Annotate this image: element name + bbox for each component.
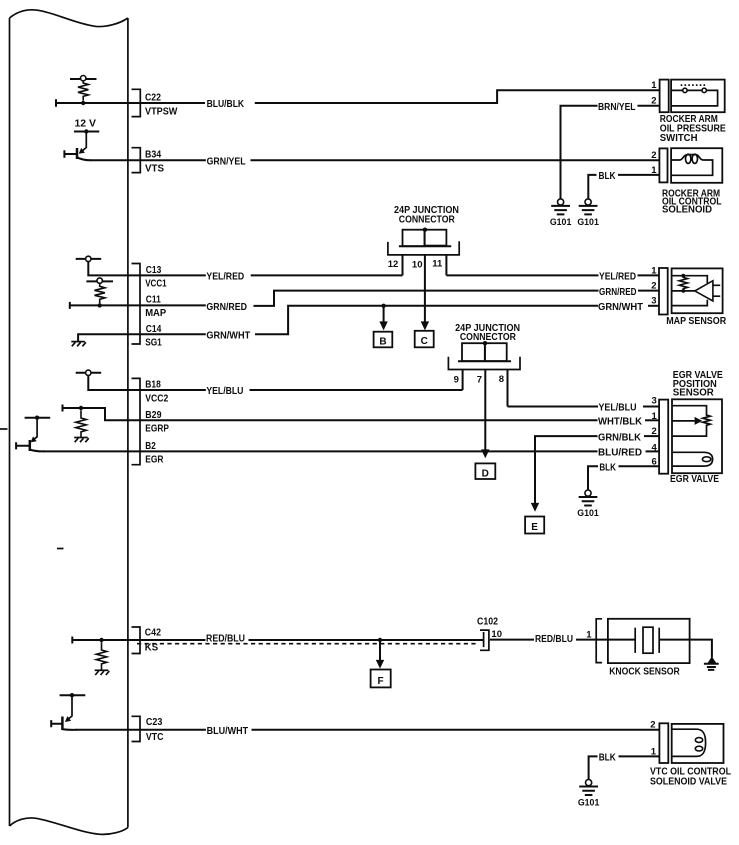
svg-text:F: F xyxy=(378,676,384,687)
svg-text:EGRP: EGRP xyxy=(145,424,169,435)
wire YEL/BLU (B18 to junction pin 9) xyxy=(129,385,463,397)
svg-text:6: 6 xyxy=(652,456,657,467)
transistor Q1 (VTS driver) xyxy=(64,129,99,160)
EGR valve position sensor / EGR valve xyxy=(652,370,724,485)
wire GRN/WHT (C14 to MAP sensor) xyxy=(129,301,660,342)
VTC oil control solenoid valve xyxy=(650,720,731,788)
wire YEL/RED (junction pin 11 to MAP sensor) xyxy=(446,271,659,283)
svg-text:GRN/BLK: GRN/BLK xyxy=(598,431,641,443)
wire C22 internal xyxy=(56,99,129,106)
svg-text:GRN/RED: GRN/RED xyxy=(599,286,637,298)
svg-text:SG1: SG1 xyxy=(145,337,162,348)
svg-text:B: B xyxy=(379,336,386,347)
knock sensor xyxy=(586,619,718,678)
svg-text:9: 9 xyxy=(454,374,459,385)
svg-text:1: 1 xyxy=(652,411,658,422)
svg-text:C22: C22 xyxy=(145,92,161,103)
resistor R3 at pin B29 xyxy=(63,405,129,443)
svg-text:YEL/BLU: YEL/BLU xyxy=(206,385,243,397)
svg-text:YEL/RED: YEL/RED xyxy=(206,271,244,283)
svg-text:B18: B18 xyxy=(145,380,161,391)
svg-text:C11: C11 xyxy=(146,295,161,306)
connector bracket C42 xyxy=(132,627,141,654)
svg-text:11: 11 xyxy=(432,259,443,270)
svg-text:EGR VALVE: EGR VALVE xyxy=(670,474,719,485)
svg-text:12: 12 xyxy=(388,259,399,270)
svg-text:C13: C13 xyxy=(146,265,162,276)
svg-text:G101: G101 xyxy=(577,217,599,227)
svg-text:1: 1 xyxy=(651,165,657,176)
connector bracket C22 xyxy=(132,89,141,116)
svg-text:MAP SENSOR: MAP SENSOR xyxy=(666,316,727,327)
wire GRN/YEL (B34 to rocker arm oil control solenoid) xyxy=(129,155,660,167)
svg-text:SOLENOID VALVE: SOLENOID VALVE xyxy=(650,776,727,787)
svg-text:BLK: BLK xyxy=(599,170,616,182)
svg-text:4: 4 xyxy=(652,442,658,453)
svg-text:VCC2: VCC2 xyxy=(145,393,168,404)
svg-text:GRN/WHT: GRN/WHT xyxy=(206,330,250,342)
svg-text:C102: C102 xyxy=(477,616,498,627)
svg-text:3: 3 xyxy=(652,396,657,407)
svg-text:VTS: VTS xyxy=(145,164,164,175)
svg-text:2: 2 xyxy=(651,96,656,107)
svg-text:RED/BLU: RED/BLU xyxy=(206,633,245,645)
svg-text:10: 10 xyxy=(491,629,502,640)
wire junction pin 8 stub xyxy=(507,370,509,407)
node VCC1 supply bar at C13 xyxy=(76,256,129,275)
wire junction pin 12 stub xyxy=(402,255,404,276)
svg-text:BLU/WHT: BLU/WHT xyxy=(207,725,249,737)
wire BLK (EGR valve to G101) xyxy=(588,462,659,490)
connector F box xyxy=(371,670,391,688)
svg-text:E: E xyxy=(531,522,538,533)
connector bracket B34 xyxy=(132,148,141,173)
svg-text:C: C xyxy=(421,336,428,347)
svg-text:KNOCK SENSOR: KNOCK SENSOR xyxy=(609,666,680,677)
resistor R2 at pin C11 xyxy=(86,278,113,308)
svg-text:G101: G101 xyxy=(577,508,599,518)
wire C11 internal xyxy=(70,302,129,309)
transistor Q3 (VTC driver) xyxy=(51,693,85,730)
svg-text:BLK: BLK xyxy=(599,752,616,764)
rocker arm oil control solenoid xyxy=(651,148,722,215)
wire RED/BLU (C102 to knock sensor) xyxy=(490,633,635,645)
svg-text:8: 8 xyxy=(499,374,504,385)
wire junction pin 11 stub xyxy=(445,255,447,276)
arrowhead to connector E xyxy=(531,503,539,512)
ground G101 (VTC BLK) xyxy=(578,780,600,808)
svg-text:YEL/BLU: YEL/BLU xyxy=(599,402,637,414)
svg-text:3: 3 xyxy=(651,296,656,307)
wire to connector F xyxy=(379,640,381,660)
svg-text:SOLENOID: SOLENOID xyxy=(662,205,712,216)
svg-text:CONNECTOR: CONNECTOR xyxy=(399,214,456,225)
svg-text:EGR: EGR xyxy=(145,454,164,465)
svg-text:RED/BLU: RED/BLU xyxy=(535,633,573,645)
connector D box xyxy=(475,463,495,479)
svg-text:SWITCH: SWITCH xyxy=(660,133,698,144)
wire B2 internal xyxy=(43,450,129,452)
svg-text:B29: B29 xyxy=(145,410,162,421)
inline connector C102 pin 10 xyxy=(477,616,502,650)
svg-text:1: 1 xyxy=(651,80,657,91)
wire C23 internal xyxy=(76,729,129,731)
wire YEL/BLU (junction pin 8 to EGR sensor) xyxy=(508,402,660,414)
24P junction connector 1 xyxy=(388,205,459,270)
svg-text:G101: G101 xyxy=(578,797,600,807)
ground SG1 internal xyxy=(71,334,128,346)
wire GRN/BLK (EGR sensor to connector E) xyxy=(535,431,659,503)
svg-text:B34: B34 xyxy=(145,149,162,160)
wire GRN/RED (C11 to MAP sensor) xyxy=(129,286,660,313)
wire BRN/YEL (oil pressure switch to G101) xyxy=(561,101,660,199)
MAP sensor xyxy=(651,266,727,327)
wire junction pin 7 to connector D xyxy=(484,370,486,450)
wire YEL/RED (C13 to junction pin 12) xyxy=(129,271,403,283)
connector E box xyxy=(525,517,544,534)
connector B box xyxy=(374,332,393,348)
svg-text:12 V: 12 V xyxy=(75,118,97,129)
svg-text:BRN/YEL: BRN/YEL xyxy=(598,101,636,113)
wire WHT/BLK (B29 to EGR sensor) xyxy=(129,416,660,428)
stray mark xyxy=(57,548,64,550)
svg-text:2: 2 xyxy=(652,426,657,437)
svg-text:10: 10 xyxy=(412,259,423,270)
node VCC2 supply bar at B18 xyxy=(76,370,129,390)
wire junction pin 9 stub xyxy=(462,370,464,391)
wire BLU/BLK (C22 to rocker arm oil pressure switch) xyxy=(129,90,660,110)
wire BLU/WHT (C23 to VTC solenoid) xyxy=(129,725,660,737)
rocker arm oil pressure switch xyxy=(651,80,726,144)
connector bracket C23 xyxy=(132,716,141,741)
transistor Q2 (EGR driver) xyxy=(16,416,50,452)
connector C box xyxy=(415,331,434,348)
svg-text:MAP: MAP xyxy=(145,308,166,319)
wire BLK (VTC solenoid to G101) xyxy=(589,752,660,780)
svg-text:2: 2 xyxy=(651,281,656,292)
wire BLU/RED (B2 to EGR valve) xyxy=(129,447,660,459)
wire RED/BLU shielded (C42 to C102) xyxy=(129,633,484,645)
connector bracket B18/B29/B2 xyxy=(132,378,141,464)
svg-text:GRN/YEL: GRN/YEL xyxy=(207,155,246,167)
svg-text:1: 1 xyxy=(651,746,657,757)
connector bracket C13/C11/C14 xyxy=(132,264,141,345)
resistor R1 pull-up at pin C22 xyxy=(70,76,97,106)
ground G101 (EGR BLK) xyxy=(577,490,599,518)
svg-text:VTC: VTC xyxy=(146,732,164,743)
svg-text:YEL/RED: YEL/RED xyxy=(599,271,636,283)
svg-text:7: 7 xyxy=(477,374,482,385)
svg-text:VTPSW: VTPSW xyxy=(145,107,178,118)
svg-text:BLU/BLK: BLU/BLK xyxy=(207,98,245,110)
svg-text:VCC1: VCC1 xyxy=(145,278,167,289)
24P junction connector 2 xyxy=(448,323,520,386)
svg-text:BLU/RED: BLU/RED xyxy=(598,447,642,459)
svg-text:D: D xyxy=(482,468,489,479)
svg-text:B2: B2 xyxy=(145,441,156,452)
svg-text:C23: C23 xyxy=(146,717,163,728)
svg-text:C42: C42 xyxy=(145,628,162,639)
svg-text:G101: G101 xyxy=(550,217,572,227)
wire B34 internal xyxy=(90,159,129,161)
ground G101 (solenoid BLK) xyxy=(577,199,599,227)
ECM body outline xyxy=(10,10,128,835)
resistor R4 at pin C42 xyxy=(72,637,128,676)
svg-text:GRN/WHT: GRN/WHT xyxy=(598,301,644,313)
svg-text:1: 1 xyxy=(586,630,592,641)
svg-text:WHT/BLK: WHT/BLK xyxy=(598,416,642,428)
node on GRN/WHT wire to connector B xyxy=(381,304,385,308)
svg-text:1: 1 xyxy=(651,266,657,277)
svg-text:CONNECTOR: CONNECTOR xyxy=(460,332,517,343)
wire junction pin 10 to connector C xyxy=(424,255,426,322)
stray mark xyxy=(0,428,8,430)
svg-text:BLK: BLK xyxy=(599,462,616,474)
svg-text:SENSOR: SENSOR xyxy=(673,387,715,398)
svg-text:2: 2 xyxy=(651,150,656,161)
svg-text:GRN/RED: GRN/RED xyxy=(206,301,247,313)
wire BLK (oil control solenoid to G101) xyxy=(588,170,659,199)
svg-text:2: 2 xyxy=(650,720,655,731)
ground G101 (BRN/YEL) xyxy=(550,199,572,227)
